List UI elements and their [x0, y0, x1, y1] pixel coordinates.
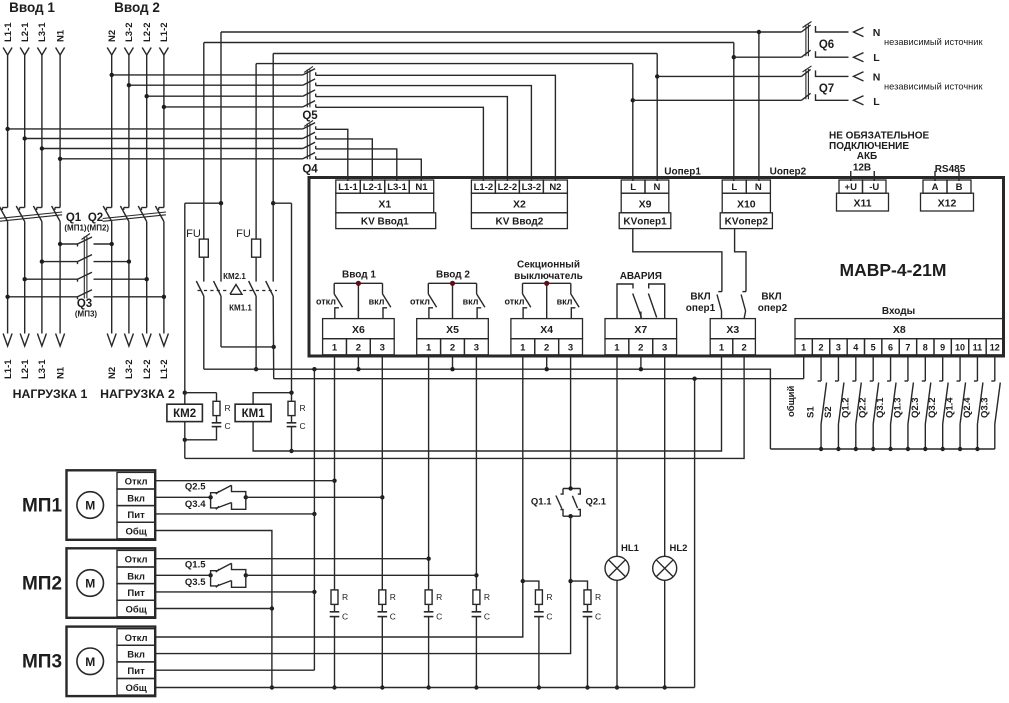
svg-text:опер1: опер1	[686, 303, 716, 314]
node Q2.4 on input common	[975, 447, 979, 451]
svg-text:Q3.3: Q3.3	[979, 397, 990, 418]
svg-text:L1-2: L1-2	[159, 359, 170, 379]
input arrow N2 (Ввод 2)	[107, 48, 116, 56]
wire X10 L drop	[733, 43, 735, 172]
svg-text:МАВР-4-21М: МАВР-4-21М	[840, 260, 947, 280]
wire snubber 5 to common	[538, 617, 540, 688]
output arrow N2 (НАГРУЗКА 2)	[107, 334, 116, 347]
svg-text:3: 3	[474, 343, 479, 354]
node X4 pin1 snubber tap	[521, 579, 525, 583]
svg-text:Q6: Q6	[819, 39, 834, 51]
node HL1 on common	[615, 685, 619, 689]
wire Q5 pole 4 to X2 L1-2	[316, 107, 484, 171]
node МП2 Вкл junction	[474, 573, 478, 577]
svg-text:ВКЛ: ВКЛ	[690, 292, 710, 303]
svg-text:1: 1	[614, 343, 620, 354]
svg-text:Q5: Q5	[302, 110, 318, 122]
svg-text:L1-1: L1-1	[3, 359, 14, 379]
svg-text:S2: S2	[823, 406, 834, 418]
svg-text:L3-2: L3-2	[124, 359, 135, 379]
terminal block X4 (Секционный выключатель)	[511, 319, 583, 355]
wire tap N1 to Q4	[60, 158, 303, 160]
wire МП2 Вкл (right of contact)	[246, 574, 477, 576]
resistor R (КМ1 snubber)	[291, 393, 293, 402]
svg-text:3: 3	[662, 343, 667, 354]
wire Q4 pole 3 to X1 L3-1	[316, 149, 397, 171]
capacitor C (snubber 2)	[381, 604, 383, 611]
resistor R (snubber 3)	[425, 590, 432, 605]
svg-text:C: C	[225, 421, 231, 431]
fuse FU1	[199, 239, 208, 257]
output arrow L3-2 (НАГРУЗКА 2)	[124, 334, 133, 347]
svg-text:Q2.5: Q2.5	[185, 482, 206, 493]
node HL2 on common	[663, 685, 667, 689]
node L2-1 tap junction	[23, 136, 27, 140]
node КМ2 bottom junction	[183, 438, 187, 442]
wire snubber 2 to common	[381, 617, 383, 688]
node МП2 Откл junction	[426, 557, 430, 561]
svg-text:C: C	[546, 612, 552, 622]
svg-text:C: C	[390, 612, 396, 622]
svg-text:L: L	[630, 182, 636, 193]
terminal block X10 (KVопер2)	[720, 171, 772, 229]
svg-text:Q3.5: Q3.5	[185, 577, 206, 588]
svg-text:М: М	[85, 499, 95, 513]
wire КМ2 coil top	[184, 393, 186, 405]
wire KVопер1 to ВКЛ опер1 contact	[633, 229, 722, 292]
input arrow L3-1 (Ввод 1)	[37, 48, 46, 56]
node КМ1 snubber bottom junction	[289, 449, 293, 453]
capacitor C (КМ1 snubber)	[287, 422, 297, 424]
wire tap L2-2 to Q5	[147, 95, 303, 97]
resistor R (snubber 6)	[584, 590, 591, 605]
wire vertical N-опер1	[272, 54, 274, 282]
wire МП3 Пит	[155, 669, 314, 671]
svg-text:МП3: МП3	[22, 652, 62, 673]
wire snubber 3 to common	[428, 617, 430, 688]
capacitor C (snubber 1)	[334, 604, 336, 611]
node X4 pin2 on Bus A	[545, 367, 549, 371]
wire snubber 1 to common	[334, 617, 336, 688]
svg-text:Q4: Q4	[302, 164, 318, 176]
switch Q5 (Ввод 2 select) 4-pole	[302, 66, 318, 122]
svg-text:L2-2: L2-2	[142, 22, 153, 42]
svg-text:X7: X7	[634, 324, 647, 336]
resistor R (snubber 5)	[535, 590, 542, 605]
svg-text:Вкл: Вкл	[127, 650, 145, 661]
node L3-1 tap junction	[40, 146, 44, 150]
svg-text:KV Ввод1: KV Ввод1	[361, 217, 409, 228]
svg-text:независимый источник: независимый источник	[884, 37, 983, 47]
node line1 X10-N tap	[757, 30, 761, 34]
wire КМ1 coil bottom to bus	[253, 357, 721, 451]
contact Q1.5/Q3.5 parallel bypass	[208, 563, 248, 587]
wire КМ2 bus to X3 pin2	[185, 357, 744, 459]
terminal block X9 (KVопер1)	[619, 171, 671, 229]
svg-text:Q3.2: Q3.2	[927, 397, 938, 418]
svg-text:1: 1	[719, 343, 725, 354]
switch input Q1.4	[957, 356, 966, 449]
wire N1 vertical (Ввод 1 line)	[59, 55, 61, 208]
svg-text:2: 2	[741, 343, 746, 354]
contactor coil КМ1	[235, 404, 271, 421]
svg-text:8: 8	[923, 343, 928, 353]
svg-text:9: 9	[940, 343, 945, 353]
node Q3.1 on input common	[888, 447, 892, 451]
node Q1.2 on input common	[854, 447, 858, 451]
svg-text:L1-2: L1-2	[159, 22, 170, 42]
wire tap L1-1 to Q4	[8, 128, 303, 130]
svg-text:Q2: Q2	[88, 212, 103, 224]
node Q2.3 on input common	[923, 447, 927, 451]
wire snubber 6 to common	[587, 617, 589, 688]
svg-text:C: C	[595, 612, 601, 622]
switch input Q2.2	[870, 356, 879, 449]
svg-text:X10: X10	[737, 199, 756, 211]
node X7 pin2 on Bus A	[639, 367, 643, 371]
node Q1.4 on input common	[958, 447, 962, 451]
svg-text:НАГРУЗКА 2: НАГРУЗКА 2	[100, 387, 175, 401]
svg-text:КМ2.1: КМ2.1	[223, 272, 246, 281]
svg-text:L3-1: L3-1	[37, 22, 48, 42]
svg-text:L2-1: L2-1	[20, 359, 31, 379]
svg-text:общий: общий	[786, 385, 797, 417]
wire X7 pin2 to Bus A	[640, 356, 642, 369]
svg-text:Q3.4: Q3.4	[185, 499, 206, 510]
switch input Q1.3	[904, 356, 913, 449]
svg-text:R: R	[436, 592, 442, 602]
svg-text:Общ: Общ	[125, 683, 146, 694]
svg-text:L3-1: L3-1	[37, 359, 48, 379]
wire КМ1 coil top jog	[253, 393, 291, 405]
node МП1 Вкл junction	[380, 495, 384, 499]
svg-text:Q1.4: Q1.4	[945, 397, 956, 418]
node L1-1 tap junction	[5, 127, 9, 131]
wire Bus B (switched N / общий)	[274, 378, 804, 380]
motor drive block МП3	[67, 627, 156, 697]
svg-text:откл: откл	[316, 297, 336, 307]
svg-text:R: R	[342, 592, 348, 602]
input arrow L3-2 (Ввод 2)	[124, 48, 133, 56]
terminal block X8 (Входы)	[795, 319, 1004, 355]
output arrow L2-2 (НАГРУЗКА 2)	[142, 334, 151, 347]
svg-text:X9: X9	[639, 199, 652, 211]
node Q7-N tap	[655, 74, 659, 78]
wire tap L3-2 to Q5	[129, 84, 303, 86]
resistor R (snubber 4)	[473, 590, 480, 605]
wire snubber jog (RC5)	[523, 581, 539, 590]
wire L2-1 vertical (Ввод 1 line)	[24, 55, 26, 208]
switch input Q3.1	[887, 356, 896, 449]
svg-text:Q1: Q1	[66, 212, 82, 224]
svg-text:Вкл: Вкл	[127, 571, 145, 582]
node X6 pin2 on Bus A	[356, 367, 360, 371]
fuse FU2	[252, 239, 261, 257]
svg-text:Ввод 1: Ввод 1	[342, 270, 376, 281]
svg-text:N: N	[653, 182, 660, 193]
svg-text:N2: N2	[107, 30, 118, 42]
motor drive block МП1	[67, 470, 156, 540]
svg-text:X5: X5	[446, 324, 459, 336]
wire net L-опер2 (line 2)	[204, 42, 734, 44]
wire МП3 Общ / common bus	[155, 687, 694, 689]
input arrow L2-1 (Ввод 1)	[20, 48, 29, 56]
wire X4 pin1 to МП3 Откл	[155, 356, 523, 637]
svg-text:2: 2	[638, 343, 643, 354]
capacitor C (snubber 6)	[587, 604, 589, 611]
svg-text:FU: FU	[186, 228, 201, 240]
svg-text:C: C	[484, 612, 490, 622]
svg-text:L3-2: L3-2	[124, 22, 135, 42]
svg-text:7: 7	[905, 343, 910, 353]
wire МП1 Вкл (left of contact)	[155, 496, 210, 498]
svg-text:КМ2: КМ2	[173, 408, 196, 420]
svg-text:3: 3	[380, 343, 385, 354]
wire HL1 to common	[616, 580, 618, 687]
svg-text:X8: X8	[893, 324, 906, 336]
svg-text:HL1: HL1	[621, 543, 640, 554]
svg-text:B: B	[956, 182, 963, 193]
wire Q5 pole 3 to X2 L2-2	[316, 97, 508, 171]
svg-text:Q3.1: Q3.1	[875, 397, 886, 418]
wire X7 pin3 to lamp HL2	[664, 356, 666, 556]
svg-text:Q1.3: Q1.3	[892, 397, 903, 418]
svg-text:откл: откл	[504, 297, 524, 307]
wire L3-2 vertical (Ввод 2 line)	[128, 55, 130, 208]
contactor coil КМ2	[167, 404, 203, 421]
node S2 on input common	[836, 447, 840, 451]
wire Q4 pole 2 to X1 L2-1	[316, 139, 373, 171]
node Bus B to Общ net tie	[692, 377, 696, 381]
svg-text:Q7: Q7	[819, 83, 834, 95]
lamp HL2	[653, 556, 677, 580]
svg-text:R: R	[225, 403, 231, 413]
switch input S1	[818, 356, 827, 449]
wire X5 pin2 to Bus A	[452, 356, 454, 369]
svg-text:Q2.2: Q2.2	[858, 397, 869, 418]
switch input Q3.2	[939, 356, 948, 449]
wire snubber jog (RC6)	[571, 581, 588, 590]
svg-text:4: 4	[853, 343, 858, 353]
node МП1 Пит on Пит column	[312, 512, 316, 516]
wire МП1 Откл	[155, 480, 334, 482]
svg-text:2: 2	[544, 343, 549, 354]
svg-text:HL2: HL2	[670, 543, 688, 554]
svg-text:1: 1	[520, 343, 526, 354]
svg-text:X6: X6	[352, 324, 365, 336]
svg-text:МП2: МП2	[22, 573, 62, 594]
svg-text:C: C	[342, 612, 348, 622]
node L2-2 tap junction	[145, 94, 149, 98]
svg-text:откл: откл	[410, 297, 430, 307]
svg-text:KV Ввод2: KV Ввод2	[496, 217, 544, 228]
node FU2 output on Bus A	[254, 367, 258, 371]
wire tap N2 to Q5	[112, 74, 303, 76]
svg-text:6: 6	[888, 343, 893, 353]
svg-text:опер2: опер2	[758, 303, 788, 314]
svg-text:КМ1: КМ1	[242, 408, 266, 420]
switch input Q2.3	[922, 356, 931, 449]
terminal block X1 (KV Ввод1)	[336, 171, 436, 229]
wire net N-опер1 (line 3)	[273, 53, 657, 55]
svg-text:Q1.2: Q1.2	[840, 397, 851, 418]
wire L1-2 vertical (Ввод 2 line)	[163, 55, 165, 208]
wire Bus A (switched L common)	[204, 369, 771, 449]
svg-text:3: 3	[568, 343, 573, 354]
wire snubber 4 to common	[475, 617, 477, 688]
svg-text:Общ: Общ	[125, 605, 146, 616]
terminal block X12 (RS485)	[921, 171, 974, 211]
wire X6 pin3 to МП1 Вкл and snubber	[381, 356, 383, 590]
node МП2 Общ junction	[270, 606, 274, 610]
node Общ column to common bus	[270, 685, 274, 689]
svg-text:R: R	[390, 592, 396, 602]
svg-text:АКБ: АКБ	[857, 151, 878, 162]
svg-text:L: L	[873, 96, 880, 108]
wire R to C (КМ1 snubber)	[291, 416, 293, 423]
wire tap L2-1 to Q4	[25, 138, 303, 140]
node S1 on input common	[819, 447, 823, 451]
svg-text:X4: X4	[540, 324, 553, 336]
wire МП2 Вкл (left of contact)	[155, 574, 210, 576]
svg-text:C: C	[436, 612, 442, 622]
breaker Q1 4-pole contact group	[0, 206, 62, 222]
capacitor C (snubber 4)	[475, 604, 477, 611]
svg-text:Откл: Откл	[125, 633, 148, 644]
wire X9 L drop	[632, 64, 634, 171]
svg-text:N: N	[873, 27, 881, 39]
svg-text:Пит: Пит	[127, 588, 145, 599]
svg-text:R: R	[595, 592, 601, 602]
svg-text:Q2.3: Q2.3	[910, 397, 921, 418]
svg-text:L2-1: L2-1	[363, 182, 383, 193]
wire X4 pin3 upper (to Q1.1/Q2.1)	[570, 356, 572, 485]
wire Пит column (Bus A to МП Пит)	[313, 369, 315, 670]
node Q6-L tap	[732, 55, 736, 59]
node snubber 4 on common	[474, 685, 478, 689]
interlock triangle symbol	[230, 285, 242, 295]
wire R to C (КМ2 snubber)	[216, 416, 218, 423]
svg-text:N1: N1	[415, 182, 428, 193]
resistor R (КМ2 snubber)	[213, 401, 220, 415]
svg-text:R: R	[300, 403, 306, 413]
node МП2 Пит on Пит column	[312, 590, 316, 594]
terminal block X3	[710, 319, 755, 355]
terminal block X5 (Ввод 2 control)	[417, 319, 489, 355]
terminal block X7 (АВАРИЯ)	[605, 319, 677, 355]
contact ВКЛ опер1	[718, 291, 722, 293]
node Q3.2 on input common	[940, 447, 944, 451]
motor drive block МП2	[67, 548, 156, 618]
svg-text:Q1.5: Q1.5	[185, 560, 206, 571]
svg-text:Ввод 2: Ввод 2	[436, 270, 470, 281]
svg-text:L2-2: L2-2	[498, 182, 518, 193]
wire tap L3-1 to Q4	[42, 148, 303, 150]
wire X4 pin3 lower to МП3 Вкл	[155, 517, 570, 653]
wire МП1 Вкл (right of contact)	[246, 496, 382, 498]
svg-text:Вкл: Вкл	[127, 493, 145, 504]
wire Q5 pole 2 to X2 L3-2	[316, 86, 532, 171]
svg-text:R: R	[546, 592, 552, 602]
svg-text:N2: N2	[107, 367, 118, 379]
node tie switched-N at 273.2,346.9	[272, 345, 276, 349]
node L3-2 tap junction	[127, 83, 131, 87]
node N1 tap junction	[58, 157, 62, 161]
svg-text:1: 1	[801, 343, 806, 353]
svg-text:A: A	[932, 182, 939, 193]
svg-text:RS485: RS485	[935, 164, 966, 175]
node МП1 Откл junction	[332, 479, 336, 483]
svg-text:KVопер2: KVопер2	[725, 217, 769, 228]
svg-text:L2-1: L2-1	[20, 22, 31, 42]
svg-text:ВКЛ: ВКЛ	[761, 292, 781, 303]
wire КМ2 coil bottom to bus	[184, 422, 186, 459]
svg-text:1: 1	[426, 343, 432, 354]
contact КМ2.1 pole a (on FU1 line)	[196, 281, 204, 296]
node Q1.3 on input common	[906, 447, 910, 451]
svg-text:C: C	[300, 421, 306, 431]
switch Q6 (независимый источник 1)	[801, 22, 863, 62]
node КМ1 coil top junction	[289, 391, 293, 395]
svg-text:М: М	[85, 577, 95, 591]
svg-text:12: 12	[990, 343, 1000, 353]
svg-text:Uопер1: Uопер1	[664, 167, 701, 178]
svg-text:Секционный: Секционный	[517, 260, 580, 271]
svg-text:N: N	[755, 182, 762, 193]
node КМ2 coil top junction	[183, 391, 187, 395]
svg-text:+U: +U	[845, 182, 858, 193]
svg-text:Пит: Пит	[127, 510, 145, 521]
capacitor C (snubber 3)	[428, 604, 430, 611]
node L1-2 tap junction	[162, 105, 166, 109]
terminal block X2 (KV Ввод2)	[471, 171, 567, 229]
svg-text:X11: X11	[853, 198, 871, 210]
wire C bottom to КМ2 return	[185, 427, 217, 440]
svg-text:2: 2	[819, 343, 824, 353]
wire vertical N-опер2 (to jog and КМ2.1)	[220, 32, 222, 282]
svg-text:выключатель: выключатель	[514, 271, 583, 282]
svg-text:НАГРУЗКА 1: НАГРУЗКА 1	[13, 387, 88, 401]
svg-text:Входы: Входы	[882, 306, 915, 317]
wire КМ2 snubber jog	[185, 392, 217, 394]
node N-опер1 jog junction	[271, 201, 275, 205]
wire МП1 Общ	[155, 531, 272, 688]
wire L1-1 vertical (Ввод 1 line)	[7, 55, 9, 208]
output arrow L3-1 (НАГРУЗКА 1)	[37, 334, 46, 347]
wire net L-опер1 (line 4)	[256, 63, 633, 65]
svg-text:X2: X2	[513, 199, 526, 211]
wire X8 pin1 общий to Bus B	[803, 356, 805, 379]
interlock dashed link КМ2.1/КМ1.1	[198, 290, 230, 292]
wire L3-1 vertical (Ввод 1 line)	[41, 55, 43, 208]
wire Q7 L feed	[633, 99, 802, 101]
wire N2 vertical (Ввод 2 line)	[111, 55, 113, 208]
svg-text:L: L	[873, 52, 880, 64]
contact КМ2.1 pole b	[214, 281, 222, 296]
svg-text:Общ: Общ	[125, 527, 146, 538]
svg-text:L1-2: L1-2	[474, 182, 494, 193]
switch Q4 (Ввод 1 select) 4-pole	[302, 120, 318, 175]
svg-text:Q1.1: Q1.1	[531, 497, 552, 508]
svg-text:Q3: Q3	[77, 298, 92, 310]
svg-text:Ввод 1: Ввод 1	[9, 0, 55, 15]
node Q2.2 on input common	[871, 447, 875, 451]
node X4 pin3 snubber tap	[568, 579, 572, 583]
svg-text:N2: N2	[549, 182, 561, 193]
svg-text:Q2.4: Q2.4	[962, 397, 973, 418]
wire input common bus	[770, 448, 994, 450]
contact откл/вкл Секционный	[523, 281, 580, 319]
